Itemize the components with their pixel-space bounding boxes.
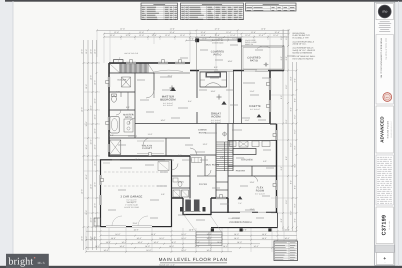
svg-text:CLOSET: CLOSET xyxy=(142,147,153,150)
svg-text:10'-6": 10'-6" xyxy=(85,174,88,179)
svg-text:11'-0": 11'-0" xyxy=(245,119,250,122)
logo: dhp dark circle xyxy=(378,5,391,18)
svg-text:12'-4": 12'-4" xyxy=(214,34,219,37)
wall: dining room south wall xyxy=(190,154,216,156)
titleblock: middle tall box xyxy=(376,35,393,105)
wall: east wall upper (dinette) xyxy=(269,71,271,125)
svg-text:SEAL: SEAL xyxy=(386,97,390,99)
svg-text:BATH: BATH xyxy=(125,116,132,119)
svg-text:14'-8": 14'-8" xyxy=(194,241,199,244)
svg-text:STONE BASE: STONE BASE xyxy=(212,41,224,44)
svg-text:8'-2": 8'-2" xyxy=(280,218,283,222)
titleblock: outer strip xyxy=(375,2,395,265)
svg-text:8'-2": 8'-2" xyxy=(285,56,288,60)
svg-text:13'-4": 13'-4" xyxy=(135,158,140,161)
svg-text:12'-4": 12'-4" xyxy=(226,31,231,34)
svg-text:16'-0": 16'-0" xyxy=(161,119,166,122)
patio 2 double border xyxy=(242,46,285,71)
svg-text:12'-2": 12'-2" xyxy=(203,143,208,146)
svg-text:12'-4": 12'-4" xyxy=(261,28,266,31)
right fold line xyxy=(398,1,400,266)
wall: pantry east wall xyxy=(251,166,253,176)
door arc: foyer to hall xyxy=(205,170,211,176)
bench: mud room cubbies xyxy=(192,158,202,163)
svg-text:12'-4": 12'-4" xyxy=(110,34,115,37)
svg-text:DINETTE: DINETTE xyxy=(249,105,261,108)
svg-text:8'-6": 8'-6" xyxy=(126,106,130,109)
svg-text:8'-2": 8'-2" xyxy=(285,119,288,123)
svg-text:PANTRY: PANTRY xyxy=(236,170,246,173)
wall: powder room partition xyxy=(172,175,191,177)
svg-text:14'-8": 14'-8" xyxy=(137,241,142,244)
titleblock: gray separator band xyxy=(375,245,394,253)
symbol: attic access triangles xyxy=(170,87,176,91)
svg-text:dhp: dhp xyxy=(382,10,388,14)
svg-text:14'-8": 14'-8" xyxy=(115,233,120,236)
edge: covered porch east edge xyxy=(277,213,279,228)
kitchen appliances on counter xyxy=(230,141,237,147)
svg-text:SLOPE TO DOOR: SLOPE TO DOOR xyxy=(124,206,140,209)
fixtures: powder room xyxy=(173,178,178,182)
svg-text:12'-4": 12'-4" xyxy=(189,38,194,41)
svg-text:10'-6": 10'-6" xyxy=(90,139,93,144)
svg-text:21'-4": 21'-4" xyxy=(168,75,173,78)
svg-text:11'-6": 11'-6" xyxy=(250,90,255,93)
fixture: master tub xyxy=(110,117,119,134)
door arc: master bedroom door xyxy=(146,90,154,98)
svg-text:14'-8": 14'-8" xyxy=(171,241,176,244)
wall: front wall left of entry xyxy=(172,197,184,199)
svg-text:12'-4": 12'-4" xyxy=(214,28,219,31)
posts: porch columns xyxy=(211,228,214,231)
fixture: toilet xyxy=(112,96,117,102)
titleblock: bottom icon box xyxy=(376,253,393,265)
wall: flex room north wall xyxy=(228,175,277,177)
wall: garage perimeter xyxy=(101,160,172,227)
bottom photo edge xyxy=(0,266,402,268)
wall: east wall lower (kitchen/flex) xyxy=(276,124,278,213)
svg-text:M.CLOS: M.CLOS xyxy=(118,79,127,82)
svg-text:8'-2": 8'-2" xyxy=(285,199,288,203)
steps: front entry steps xyxy=(196,232,222,246)
symbol: ceiling fan great room xyxy=(218,96,220,98)
fixture: bath extras xyxy=(127,92,129,110)
svg-text:10'-6": 10'-6" xyxy=(94,80,97,85)
svg-text:12'-4": 12'-4" xyxy=(200,31,205,34)
svg-text:14'-8": 14'-8" xyxy=(234,233,239,236)
svg-text:8'-2": 8'-2" xyxy=(294,145,297,149)
svg-text:14'-8": 14'-8" xyxy=(91,237,96,240)
svg-text:12'-4": 12'-4" xyxy=(114,31,119,34)
svg-text:10'-6": 10'-6" xyxy=(94,144,97,149)
symbol: dining chandelier xyxy=(223,132,227,136)
svg-text:10'-6": 10'-6" xyxy=(85,144,88,149)
svg-text:12'-4": 12'-4" xyxy=(273,34,278,37)
windows on exterior walls xyxy=(108,77,110,87)
door arc: bath hall xyxy=(129,118,135,124)
svg-text:12'-4": 12'-4" xyxy=(230,34,235,37)
wall: front wall right of entry xyxy=(211,197,228,199)
svg-text:DINING: DINING xyxy=(198,129,207,132)
garage: dashed ceiling line xyxy=(104,171,168,173)
svg-text:10'-6": 10'-6" xyxy=(94,98,97,103)
garage: misc interior marks xyxy=(103,162,110,164)
wall: hall south partition xyxy=(197,175,216,177)
door arc: walk-in closet xyxy=(143,138,150,145)
post: patio column west xyxy=(195,38,199,42)
wall: partition under m.closet xyxy=(109,91,135,93)
svg-text:10'-6": 10'-6" xyxy=(94,49,97,54)
wall: stair east wall xyxy=(232,124,234,172)
svg-text:14'-8": 14'-8" xyxy=(262,237,267,240)
fixture: laundry appliances xyxy=(173,190,180,197)
wall: pantry north wall xyxy=(228,165,277,167)
extension lines (top) xyxy=(96,30,98,57)
svg-text:9'-0" CLG HT: 9'-0" CLG HT xyxy=(163,104,173,107)
svg-text:4'-8": 4'-8" xyxy=(220,156,224,159)
counter: kitchen island xyxy=(233,149,256,155)
svg-text:BEDROOM: BEDROOM xyxy=(160,98,176,102)
svg-text:8'-2": 8'-2" xyxy=(285,35,288,39)
svg-text:10'-6": 10'-6" xyxy=(94,161,97,166)
curve: landscaping edge xyxy=(257,46,270,48)
svg-text:10'-6": 10'-6" xyxy=(85,210,88,215)
svg-text:16'-8": 16'-8" xyxy=(228,60,233,63)
svg-text:1243 SADDLE RIDGE RD: 1243 SADDLE RIDGE RD xyxy=(385,38,388,60)
wall: master bedroom west partition xyxy=(153,73,155,90)
svg-text:5'-2": 5'-2" xyxy=(263,160,267,163)
svg-text:6'-8": 6'-8" xyxy=(110,134,114,137)
svg-text:14'-8": 14'-8" xyxy=(133,228,138,231)
wall: foyer closet shelf 2 xyxy=(216,189,228,191)
svg-text:8'-2": 8'-2" xyxy=(294,203,297,207)
svg-text:6'-0": 6'-0" xyxy=(178,154,182,157)
tiny annotations scattered xyxy=(160,76,172,78)
svg-text:14'-8": 14'-8" xyxy=(136,237,141,240)
svg-text:10'-6": 10'-6" xyxy=(90,217,93,222)
svg-text:3 CAR GARAGE: 3 CAR GARAGE xyxy=(121,196,143,199)
svg-text:8'-2": 8'-2" xyxy=(294,218,297,222)
opening: dinette sliders xyxy=(244,70,268,72)
svg-text:9'-0" CLG HT: 9'-0" CLG HT xyxy=(255,192,265,195)
door arc: dining xyxy=(190,148,197,155)
wall: west wall of foyer/hall block xyxy=(189,156,191,199)
svg-text:ROOM: ROOM xyxy=(211,115,221,119)
svg-text:12'-4": 12'-4" xyxy=(139,34,144,37)
svg-text:2x6 @ 16" O.C.: 2x6 @ 16" O.C. xyxy=(293,43,307,46)
svg-text:8'-2": 8'-2" xyxy=(294,78,297,82)
wall: great room east wall line xyxy=(233,71,235,124)
svg-text:14'-8": 14'-8" xyxy=(217,241,222,244)
svg-text:19'-8": 19'-8" xyxy=(211,90,216,93)
svg-text:10'-6": 10'-6" xyxy=(85,84,88,89)
svg-text:14'-8": 14'-8" xyxy=(181,233,186,236)
svg-text:14'-8": 14'-8" xyxy=(153,241,158,244)
svg-text:14'-8": 14'-8" xyxy=(145,245,150,248)
sheet left edge line xyxy=(12,1,14,266)
wall: bedroom/great room partition lower xyxy=(196,112,198,124)
svg-text:14'-8": 14'-8" xyxy=(237,241,242,244)
garage door openings (south wall) xyxy=(106,225,126,227)
door arc: flex room xyxy=(252,176,258,182)
svg-text:8'-2": 8'-2" xyxy=(290,210,293,214)
svg-text:10'-6": 10'-6" xyxy=(85,49,88,54)
svg-text:14'-8": 14'-8" xyxy=(284,237,289,240)
table: square footage (bottom right) xyxy=(274,241,298,261)
door arc: mud to garage xyxy=(172,164,179,171)
svg-text:8'-2": 8'-2" xyxy=(294,129,297,133)
svg-text:8'-2": 8'-2" xyxy=(280,95,283,99)
svg-text:9'-0" CLG HT: 9'-0" CLG HT xyxy=(250,108,260,111)
svg-text:14'-8": 14'-8" xyxy=(119,245,124,248)
window/door tag squares xyxy=(130,60,133,63)
wall: laundry partition xyxy=(172,187,191,189)
svg-text:MASTER: MASTER xyxy=(123,114,134,117)
counter: kitchen back counter line xyxy=(228,140,277,142)
rail: curved line at stair landing xyxy=(154,70,183,72)
wall: garage east wall xyxy=(171,160,173,227)
wall: main north wall below patios xyxy=(190,70,284,72)
table: door schedule (top-left) xyxy=(141,3,178,20)
table: room finish schedule (small, top-right) xyxy=(246,3,297,11)
watermark: bright MLS box xyxy=(6,254,49,268)
svg-text:14'-8": 14'-8" xyxy=(151,233,156,236)
wall: partition above master bath xyxy=(109,109,135,111)
stairs: main stair band under north wall xyxy=(109,72,154,74)
titleblock: fine print block xyxy=(376,155,393,205)
svg-text:✚: ✚ xyxy=(383,256,386,260)
svg-text:14'-8": 14'-8" xyxy=(95,245,100,248)
svg-text:10'-6": 10'-6" xyxy=(94,203,97,208)
dimension strings below plan xyxy=(86,230,297,232)
svg-text:PATIO: PATIO xyxy=(214,53,222,56)
svg-text:14'-8": 14'-8" xyxy=(189,228,194,231)
wall: south wall of bedroom/great room xyxy=(135,123,270,125)
svg-text:9'-4": 9'-4" xyxy=(188,100,192,103)
svg-text:MUD ROOM: MUD ROOM xyxy=(206,164,220,167)
svg-text:8'-0": 8'-0" xyxy=(214,66,218,69)
stairs: basement stair flight xyxy=(217,141,233,143)
svg-text:9'-0" CLG HT: 9'-0" CLG HT xyxy=(211,121,221,124)
svg-text:ADVANCED: ADVANCED xyxy=(379,116,384,143)
svg-text:C37199: C37199 xyxy=(382,215,388,236)
extension lines (right) xyxy=(271,70,296,72)
svg-text:PATIO: PATIO xyxy=(250,59,258,62)
svg-text:12'x14' CONC: 12'x14' CONC xyxy=(228,217,240,220)
wall: kitchen west wall xyxy=(227,124,229,199)
svg-text:12'-8": 12'-8" xyxy=(250,181,255,184)
svg-text:8'-2": 8'-2" xyxy=(290,180,293,184)
svg-text:LINE OF 2ND FLR: LINE OF 2ND FLR xyxy=(124,52,139,55)
svg-text:FOYER: FOYER xyxy=(199,183,208,186)
svg-text:14'-8": 14'-8" xyxy=(181,249,186,252)
dimension strings above plan xyxy=(97,29,289,31)
svg-text:TRUE BUILT CONSTRUCTION CO. RE: TRUE BUILT CONSTRUCTION CO. RE: xyxy=(380,38,383,79)
svg-text:4" CONC SLAB: 4" CONC SLAB xyxy=(125,204,138,207)
wall: great room / dinette beam line xyxy=(241,71,243,124)
svg-text:8'-2": 8'-2" xyxy=(280,56,283,60)
rail: line east of stairs xyxy=(154,72,190,74)
svg-text:10'-6": 10'-6" xyxy=(81,49,84,54)
svg-text:14'-8": 14'-8" xyxy=(146,249,151,252)
svg-text:8'-2": 8'-2" xyxy=(285,156,288,160)
dimension strings right of plan xyxy=(282,29,284,231)
svg-text:8'-2": 8'-2" xyxy=(280,35,283,39)
svg-text:MLS: MLS xyxy=(38,261,45,265)
opening: porch door & window xyxy=(240,211,252,213)
svg-text:www.advancedhouseplans.com: www.advancedhouseplans.com xyxy=(391,121,393,138)
titleblock: ADVANCED box xyxy=(376,106,393,153)
wall: walk-in closet east wall xyxy=(165,138,167,156)
svg-text:12'-4": 12'-4" xyxy=(251,31,256,34)
svg-text:9'-0" CLG HT: 9'-0" CLG HT xyxy=(126,201,136,204)
step: garage SW corner stoop xyxy=(94,218,101,226)
svg-text:12'-4": 12'-4" xyxy=(125,34,130,37)
wall: west wall of master wing xyxy=(108,63,110,157)
svg-text:5'-6": 5'-6" xyxy=(161,193,165,196)
svg-text:14'-8": 14'-8" xyxy=(223,245,228,248)
edge: patio 1 west line xyxy=(196,39,198,70)
svg-text:8'-2": 8'-2" xyxy=(285,84,288,88)
posts: entry columns xyxy=(180,207,183,212)
table: window schedule (top-middle) xyxy=(181,3,244,20)
svg-text:14'-8": 14'-8" xyxy=(159,237,164,240)
wall: hall closet partition xyxy=(204,156,206,176)
symbol: patio2 ceiling fan xyxy=(265,63,267,65)
svg-text:10'-6": 10'-6" xyxy=(94,182,97,187)
svg-text:HGT. UNLESS NOTED: HGT. UNLESS NOTED xyxy=(293,57,314,60)
svg-text:12'-4": 12'-4" xyxy=(169,31,174,34)
svg-text:12'-4": 12'-4" xyxy=(245,34,250,37)
svg-text:10'-6": 10'-6" xyxy=(90,75,93,80)
svg-text:14'-8": 14'-8" xyxy=(234,237,239,240)
svg-text:10'-6": 10'-6" xyxy=(94,114,97,119)
svg-text:10'-6": 10'-6" xyxy=(81,236,84,241)
svg-text:31'-8": 31'-8" xyxy=(133,222,138,225)
dimension strings left of plan xyxy=(83,40,85,250)
svg-text:SCALE: 1/4" = 1'-0": SCALE: 1/4" = 1'-0" xyxy=(159,264,175,267)
svg-text:8'-2": 8'-2" xyxy=(294,114,297,118)
edge: covered porch south edge xyxy=(211,227,278,229)
svg-text:12'-4": 12'-4" xyxy=(274,31,279,34)
extension lines (left) xyxy=(84,62,100,64)
svg-text:8'-2": 8'-2" xyxy=(280,166,283,170)
svg-text:12'-4": 12'-4" xyxy=(139,31,144,34)
svg-text:MAIN LEVEL FLOOR PLAN: MAIN LEVEL FLOOR PLAN xyxy=(159,257,228,262)
svg-text:14'-8": 14'-8" xyxy=(111,237,116,240)
svg-text:10'-6": 10'-6" xyxy=(81,189,84,194)
svg-text:10'-6": 10'-6" xyxy=(90,184,93,189)
svg-text:12'-4": 12'-4" xyxy=(201,34,206,37)
svg-text:10'-6": 10'-6" xyxy=(90,105,93,110)
svg-text:14'-8": 14'-8" xyxy=(262,233,267,236)
wall: south wall of master wing xyxy=(108,155,190,157)
wall: foyer closet shelf 1 xyxy=(216,181,228,183)
wall: closet/bath east partition xyxy=(134,73,136,138)
walkway: entry to steps xyxy=(184,215,197,232)
svg-text:10'-6": 10'-6" xyxy=(81,107,84,112)
fixture: closet rod with X xyxy=(122,77,131,87)
svg-text:11'-2": 11'-2" xyxy=(148,133,153,136)
svg-text:WALK-IN: WALK-IN xyxy=(142,145,153,148)
wall: foyer west / stair wall xyxy=(215,124,217,199)
symbol: ceiling fan master xyxy=(171,87,173,89)
svg-text:8'-2": 8'-2" xyxy=(290,107,293,111)
svg-text:10'-6": 10'-6" xyxy=(90,49,93,54)
svg-text:7'-4": 7'-4" xyxy=(238,202,242,205)
line: great room ceiling break xyxy=(228,71,230,124)
opening: great room sliders xyxy=(199,70,233,72)
svg-text:12'-4": 12'-4" xyxy=(120,28,125,31)
svg-text:8'-2": 8'-2" xyxy=(294,98,297,102)
entry: double doors dark panels xyxy=(185,200,191,212)
titleblock: logo box xyxy=(376,4,393,20)
patio 1 beam lines (top) xyxy=(195,37,242,39)
extension lines (bottom) xyxy=(85,228,87,252)
post: patio column east xyxy=(238,38,242,42)
svg-text:COVERED PORCH: COVERED PORCH xyxy=(229,221,251,224)
top photo edge xyxy=(5,0,402,2)
bump: fireplace chase above north wall xyxy=(114,60,124,63)
svg-text:8'-2": 8'-2" xyxy=(290,76,293,80)
wall: flex/porch south wall xyxy=(211,211,278,213)
fireplace: great room media wall xyxy=(200,72,227,87)
svg-text:13'-0": 13'-0" xyxy=(250,208,255,211)
fixture: vanity xyxy=(124,119,133,132)
svg-text:8'-2": 8'-2" xyxy=(294,185,297,189)
svg-text:14'-8": 14'-8" xyxy=(106,241,111,244)
svg-text:bright: bright xyxy=(8,256,33,267)
fixture: shower xyxy=(110,140,121,155)
svg-text:14'-8": 14'-8" xyxy=(253,245,258,248)
svg-text:LAUN: LAUN xyxy=(178,181,184,184)
svg-text:HOUSE PLANS: HOUSE PLANS xyxy=(386,120,389,138)
svg-text:8'-2": 8'-2" xyxy=(290,142,293,146)
svg-text:12'-4": 12'-4" xyxy=(180,34,185,37)
svg-text:14'-8": 14'-8" xyxy=(181,237,186,240)
wall: north wall of master wing xyxy=(109,62,190,64)
titleblock: address lines xyxy=(380,21,390,23)
svg-text:14'-8": 14'-8" xyxy=(284,228,289,231)
wall: bedroom/great room partition upper xyxy=(196,71,198,99)
svg-text:10'-6": 10'-6" xyxy=(94,128,97,133)
svg-text:5'-0": 5'-0" xyxy=(116,91,120,94)
wall: entry bay (protruding) xyxy=(183,198,211,215)
svg-text:KITCHEN: KITCHEN xyxy=(241,159,252,162)
svg-text:NOTED OTHERWISE: NOTED OTHERWISE xyxy=(293,51,313,54)
wall: east jog at kitchen xyxy=(270,123,277,125)
wall: north wall of walk-in closet xyxy=(109,137,190,139)
svg-text:12'-4": 12'-4" xyxy=(165,34,170,37)
titleblock: plan number box xyxy=(376,207,393,244)
edge: patio 1 east line xyxy=(241,39,243,46)
stamp: red engineer seal xyxy=(383,93,392,102)
svg-text:R-21 WALLS TYP.: R-21 WALLS TYP. xyxy=(293,37,310,40)
svg-text:12'-4": 12'-4" xyxy=(258,34,263,37)
svg-text:8'-2": 8'-2" xyxy=(294,163,297,167)
svg-text:12'-4": 12'-4" xyxy=(170,28,175,31)
fixture: wic shelving xyxy=(137,140,164,142)
svg-text:14'-8": 14'-8" xyxy=(103,249,108,252)
wall: flex west wall lower xyxy=(227,198,229,213)
svg-text:ROOM: ROOM xyxy=(256,189,264,192)
